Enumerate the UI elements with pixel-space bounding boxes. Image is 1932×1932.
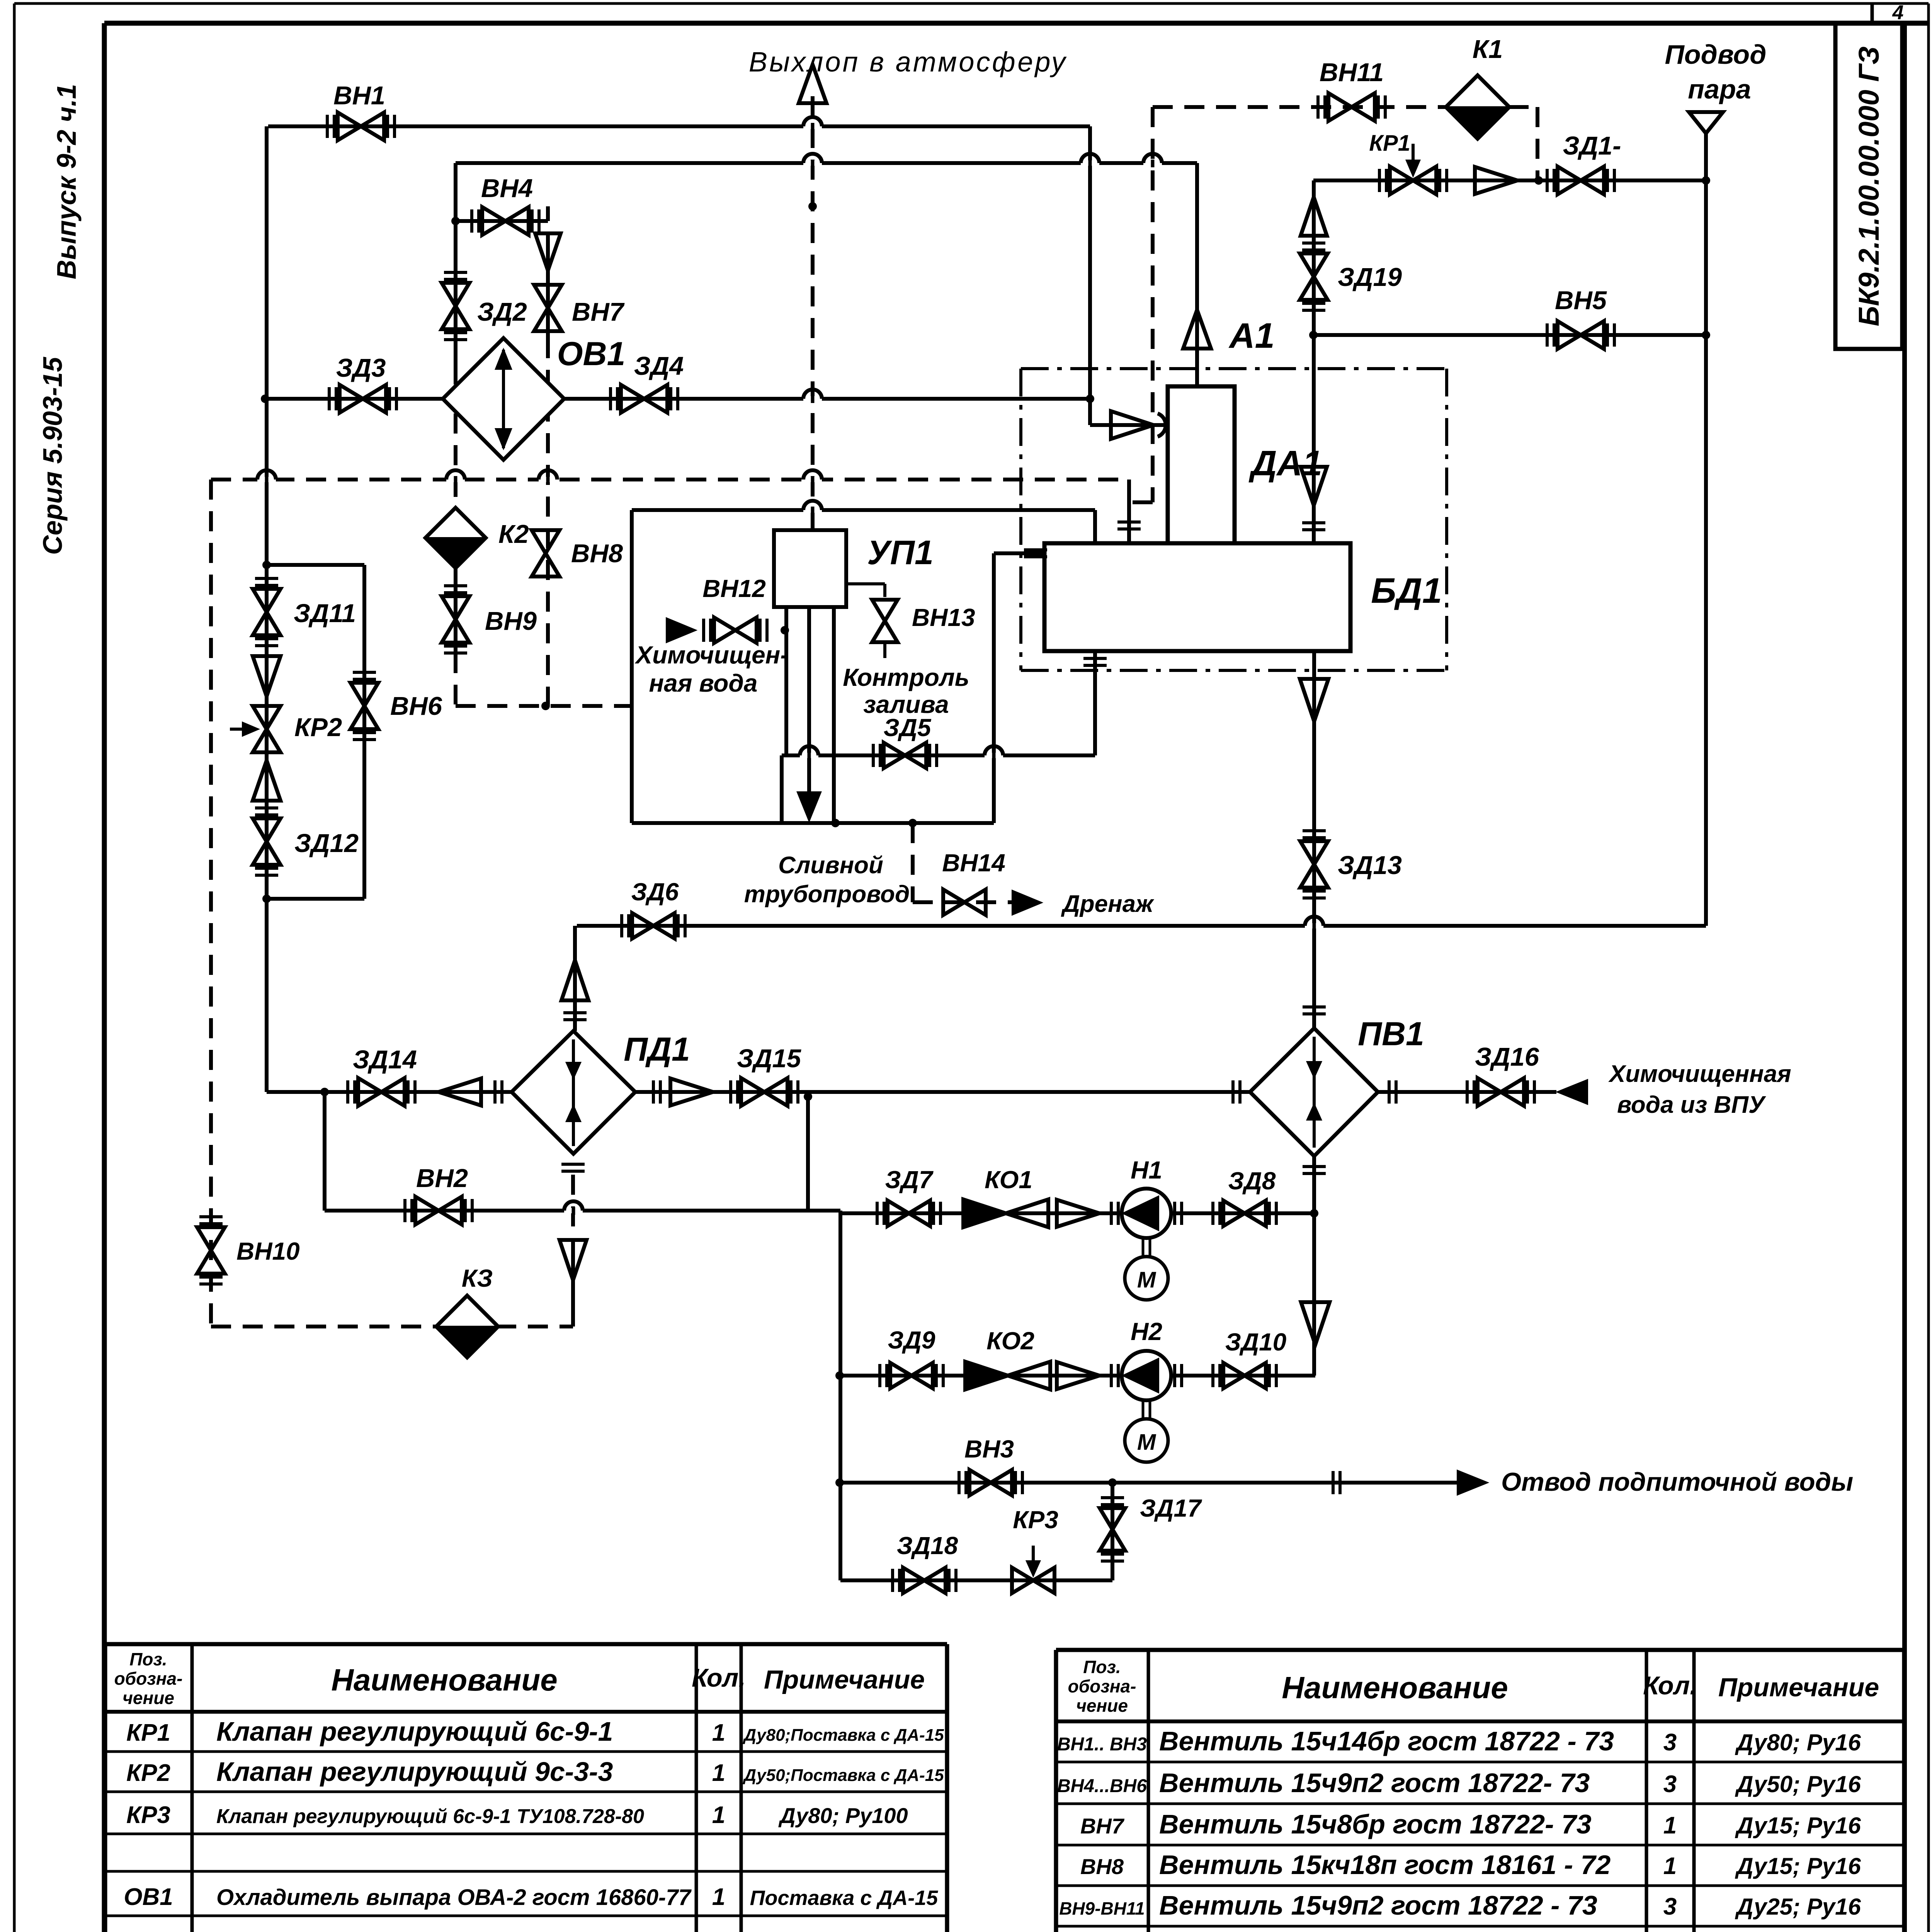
wire: tank top nozzle x=2922 (1330..1406) <box>1127 514 1131 543</box>
gate valve ЗД8 <box>1213 1201 1276 1226</box>
svg-text:ЗД8: ЗД8 <box>1228 1167 1276 1195</box>
wire: BH2 line y=3133 (840..2175) <box>325 1209 840 1213</box>
svg-text:Выхлоп в атмосферу: Выхлоп в атмосферу <box>749 47 1067 78</box>
node: BH4 tee <box>451 217 460 225</box>
svg-text:КО1: КО1 <box>985 1166 1032 1194</box>
dashed: left loop vertical x=546 (1241..3433) <box>209 480 213 1327</box>
svg-text:ВН5: ВН5 <box>1555 286 1607 315</box>
valve ВН10 <box>197 1217 225 1284</box>
svg-text:КР2: КР2 <box>126 1760 170 1786</box>
svg-text:Химочищен-: Химочищен- <box>634 641 788 669</box>
reducer above ЗД12 <box>253 760 281 801</box>
wire: KP1 line y=467 (3399..4415) <box>1313 179 1706 182</box>
wire: vertical from wire1 corner x=2821 down to OB1 line <box>1088 126 1092 425</box>
svg-text:1: 1 <box>712 1719 725 1746</box>
gate valve ЗД19 <box>1300 243 1328 310</box>
flow arrow out of ПД1 <box>670 1078 713 1105</box>
node: ZD17 tee <box>1108 1478 1117 1487</box>
gate valve ЗД10 <box>1213 1363 1276 1388</box>
wire: UP1 right pipe x=2158 (1571..2130) <box>832 607 836 823</box>
svg-text:ЗД4: ЗД4 <box>634 352 684 381</box>
svg-text:ВН10: ВН10 <box>236 1237 300 1265</box>
svg-text:ПД1: ПД1 <box>624 1031 690 1068</box>
svg-text:ВН6: ВН6 <box>390 692 442 721</box>
wire jump at 1179,1241 <box>446 477 465 482</box>
wire: bypass loop top y=1462 (690..943) <box>267 563 364 567</box>
dashed: K3 line y=3433 (546..1483) <box>211 1325 573 1328</box>
regulating valve КР1 <box>1379 144 1447 194</box>
wire: steam supply vertical x=4415 <box>1704 132 1708 926</box>
svg-text:ЗД2: ЗД2 <box>477 298 527 327</box>
svg-text:обозна-: обозна- <box>1068 1676 1136 1696</box>
gate valve ЗД16 <box>1467 1078 1534 1106</box>
svg-text:Ду15; Ру16: Ду15; Ру16 <box>1735 1813 1861 1838</box>
wire: BH4 right stub x=1418 (534..572) <box>546 206 550 221</box>
wire: ZD18 line y=4090 (2175..2879) <box>840 1578 1112 1582</box>
svg-text:ВН1.. ВН3: ВН1.. ВН3 <box>1057 1734 1147 1755</box>
svg-text:ВН13: ВН13 <box>912 604 975 631</box>
svg-text:1: 1 <box>712 1760 725 1786</box>
node: OB1 line end <box>1086 395 1094 403</box>
wire jump at 2572,1955 <box>985 753 1003 758</box>
wire: PD1 top riser x=1488 <box>573 926 577 1031</box>
node: BH14 tee <box>908 819 917 827</box>
svg-text:К2: К2 <box>498 520 529 549</box>
wire: ZD2 vertical x=1179 (572..995) <box>454 221 457 384</box>
heat exchanger ОВ1 (vapor cooler) <box>443 338 564 460</box>
valve ВН12 <box>704 617 767 643</box>
svg-text:ВН12: ВН12 <box>702 575 766 602</box>
svg-text:Отвод подпиточной воды: Отвод подпиточной воды <box>1501 1468 1853 1497</box>
svg-text:ЗД13: ЗД13 <box>1338 851 1402 880</box>
svg-text:Клапан регулирующий 6с-9-1 ТУ1: Клапан регулирующий 6с-9-1 ТУ108.728-80 <box>216 1805 644 1828</box>
wire: BH5 line y=867 (3399..4415) <box>1313 333 1706 337</box>
wire jump at 690,1241 <box>257 477 276 482</box>
inlet arrow Химочищенная вода из ВПУ <box>1558 1080 1587 1104</box>
wire: corner drop x=2035..2023 to drain <box>780 755 784 823</box>
svg-text:1: 1 <box>1663 1853 1677 1879</box>
wire: second header line y=422 from x1179 to x3098 <box>456 161 1197 165</box>
wire: suction manifold x=2175 (3133..4090) <box>838 1211 842 1580</box>
wire: K3 riser x=1483 (3040..3433) <box>571 1239 575 1327</box>
gate valve ЗД3 <box>329 385 396 413</box>
svg-text:КР1: КР1 <box>1369 131 1410 156</box>
node: steam tee BH5 <box>1702 331 1710 339</box>
dashed: K2 drain line y=1827 (1179..1635) <box>456 704 632 708</box>
node: steam tee KP1 <box>1702 176 1710 185</box>
svg-text:ОВ1: ОВ1 <box>557 335 626 372</box>
svg-text:ЗД5: ЗД5 <box>884 714 932 742</box>
wire: UP1 middle drain pipe x=2094 (1571..2115) <box>807 607 811 815</box>
svg-text:Наименование: Наименование <box>331 1663 557 1697</box>
svg-text:ВН9-ВН11: ВН9-ВН11 <box>1059 1898 1145 1918</box>
valve ВН13 branch <box>846 582 885 585</box>
wire: tank side nozzle y=1432 (2572..2703) <box>994 551 1044 555</box>
svg-text:ЗД15: ЗД15 <box>737 1044 802 1073</box>
svg-text:ЗД16: ЗД16 <box>1475 1043 1539 1071</box>
valve ВН8 <box>532 530 560 577</box>
dashed: exhaust to atmosphere x=2103 (249..1372) <box>811 96 815 530</box>
regulating valve КР2 <box>230 706 281 752</box>
gate valve ЗД12 <box>253 808 281 875</box>
reducer on ЗД19 riser <box>1301 197 1327 236</box>
node on exhaust line <box>808 202 817 211</box>
svg-text:ЗД1-: ЗД1- <box>1563 131 1621 160</box>
svg-text:ВН11: ВН11 <box>1320 58 1384 87</box>
svg-text:Вентиль 15ч9п2 гост 18722 - 7: Вентиль 15ч9п2 гост 18722 - 73 <box>1159 1890 1597 1920</box>
svg-text:Клапан регулирующий 9с-3-3: Клапан регулирующий 9с-3-3 <box>216 1757 613 1787</box>
svg-text:Наименование: Наименование <box>1282 1670 1508 1705</box>
wire: riser from ZD15 line x=2091 (2838..3133) <box>806 1097 810 1211</box>
wire: bypass drop x=840 (2826..3133) <box>323 1092 327 1211</box>
svg-text:ная вода: ная вода <box>649 669 757 697</box>
heat exchanger ПВ1 (water-water heater) <box>1250 1028 1378 1156</box>
gate valve ЗД14 <box>348 1078 415 1106</box>
svg-text:ВН3: ВН3 <box>964 1435 1014 1463</box>
svg-text:Ду25; Ру16: Ду25; Ру16 <box>1735 1894 1861 1920</box>
svg-text:1: 1 <box>1663 1812 1677 1839</box>
flow arrow into ПД1 <box>439 1078 481 1105</box>
wire: UP1 overflow drop into tank x=2834 <box>1093 510 1097 543</box>
wire jump at 1418,1241 <box>539 477 557 482</box>
svg-text:Ду15; Ру16: Ду15; Ру16 <box>1735 1853 1861 1879</box>
tank outlet funnel <box>1300 679 1328 721</box>
valve ВН5 <box>1547 321 1614 349</box>
gate valve ЗД18 <box>893 1568 956 1593</box>
wire jump at 3401,2396 <box>1305 923 1323 929</box>
valve ВН4 <box>472 207 539 235</box>
gate valve ЗД9 <box>880 1363 943 1388</box>
drain arrow (black) on UP1 middle pipe <box>798 792 821 821</box>
gate valve ЗД7 <box>877 1201 940 1226</box>
svg-text:Примечание: Примечание <box>764 1665 925 1694</box>
svg-text:3: 3 <box>1663 1893 1677 1920</box>
wire: main water line y=2826 (690..3235) <box>267 1090 1250 1094</box>
dashed: left loop horizontal y=1241 (546..2922) <box>211 478 1129 481</box>
svg-text:М: М <box>1137 1267 1156 1293</box>
node: BH12 tee <box>781 626 789 634</box>
svg-text:ЗД7: ЗД7 <box>885 1166 934 1194</box>
svg-text:пара: пара <box>1688 74 1751 104</box>
stamp box БК9.2.1.00.00.000 ГЗ (top right) <box>1835 23 1902 349</box>
dash-dot boundary A1 (deaerator unit box) <box>1021 369 1447 670</box>
wire: ZD5 line y=1955 (2023..2834) <box>782 753 1095 757</box>
wire: K2/BH9 x=1179 (1536..1690) <box>454 594 457 653</box>
node: ZD19/BH5 <box>1309 331 1318 339</box>
dashed: BH11 line y=277 (2983..3744) <box>1153 105 1447 109</box>
node: BH3 tee <box>835 1478 844 1487</box>
dashed: BH11 line vertical x=2983 (277..1300) <box>1151 107 1155 502</box>
svg-text:ЗД14: ЗД14 <box>353 1045 417 1074</box>
svg-text:Контроль: Контроль <box>843 663 969 691</box>
svg-text:чение: чение <box>1076 1696 1128 1716</box>
svg-text:4: 4 <box>1892 2 1904 24</box>
valve ВН3 <box>959 1470 1022 1495</box>
svg-text:М: М <box>1137 1430 1156 1455</box>
node: BH2 branch <box>320 1088 329 1096</box>
outlet arrow Отвод подпиточной воды <box>1458 1471 1487 1495</box>
wire: deaerator column feed vertical x=3400 (467..1406) <box>1312 180 1316 543</box>
wire jump at 2094,1955 <box>800 753 818 758</box>
node: H2 tee <box>835 1371 844 1380</box>
svg-text:Химочищенная: Химочищенная <box>1608 1061 1791 1087</box>
node: BH8/K2 line <box>541 702 550 710</box>
svg-text:ВН9: ВН9 <box>485 607 537 636</box>
wire: pump H1 line y=3140 (2175..3401) <box>840 1211 1314 1215</box>
svg-text:ВН4: ВН4 <box>481 174 533 203</box>
svg-text:ВН7: ВН7 <box>1080 1814 1125 1838</box>
flow arrow H1 <box>1057 1200 1099 1227</box>
svg-text:Вентиль 15ч9п2 гост 18722- 73: Вентиль 15ч9п2 гост 18722- 73 <box>1159 1768 1590 1798</box>
svg-text:Н2: Н2 <box>1131 1318 1162 1345</box>
svg-text:Сливной: Сливной <box>778 852 883 879</box>
svg-text:Клапан регулирующий 6с-9-1: Клапан регулирующий 6с-9-1 <box>216 1716 613 1747</box>
wire: riser x=3098 from wire2 to DA1 top <box>1195 163 1199 386</box>
wire jump at 2103,1320 <box>803 507 822 513</box>
wire: UP1 box left drop x=1635 (1320..2130) <box>630 510 634 823</box>
dashed: BH11 elbow to nozzle <box>1129 500 1153 504</box>
svg-text:Ду80; Ру16: Ду80; Ру16 <box>1735 1730 1861 1755</box>
dashed: K1 drop x=3979 (277..467) <box>1536 107 1539 180</box>
exhaust arrow to atmosphere <box>799 65 827 103</box>
gate valve ЗД4 <box>611 385 678 413</box>
gate valve ЗД17 <box>1100 1498 1125 1561</box>
valve ВН9 <box>442 586 469 653</box>
wire: drain header y=2130 (1635..2572) <box>632 821 994 825</box>
svg-text:К1: К1 <box>1473 35 1503 64</box>
deaerator column ДА1 <box>1168 386 1235 543</box>
wire: K2 to flange x=1179 (1429..1536) <box>454 552 457 594</box>
valve ВН14 <box>943 889 986 915</box>
wire: BH7 vertical x=1418 (572..875) <box>546 233 550 338</box>
svg-text:Подвод: Подвод <box>1665 39 1767 70</box>
КР3 body <box>1012 1568 1054 1593</box>
node: bypass bottom <box>262 895 271 903</box>
svg-text:Вентиль 15ч8бр гост 18722- 73: Вентиль 15ч8бр гост 18722- 73 <box>1159 1809 1592 1839</box>
svg-text:1: 1 <box>712 1884 725 1910</box>
svg-text:Кол.: Кол. <box>692 1663 746 1692</box>
reducer above ВН7 <box>535 233 561 270</box>
wire jump at 2983,422 <box>1143 160 1162 166</box>
dashed: BH7/BH8 vertical x=1418 (875..1827) <box>546 338 550 706</box>
node: K1 drop on KP1 line <box>1534 176 1543 185</box>
svg-text:ЗД6: ЗД6 <box>631 878 679 906</box>
svg-text:ВН8: ВН8 <box>1080 1854 1124 1879</box>
svg-text:трубопровод: трубопровод <box>744 881 910 908</box>
deaerator tank БД1 <box>1044 543 1350 651</box>
svg-text:ВН8: ВН8 <box>571 539 623 568</box>
gate valve ЗД2 <box>442 272 469 340</box>
svg-text:ЗД17: ЗД17 <box>1140 1494 1202 1522</box>
wire jump at 1484,3133 <box>564 1208 583 1213</box>
svg-text:1: 1 <box>712 1802 725 1828</box>
svg-text:БД1: БД1 <box>1371 571 1442 611</box>
svg-text:ПВ1: ПВ1 <box>1358 1015 1424 1053</box>
node: ZD8/PV1 <box>1310 1209 1318 1218</box>
left specification table <box>105 1644 947 1932</box>
dashed: BH14 branch x=2362 (2130..2335) <box>911 823 915 902</box>
svg-text:ЗД12: ЗД12 <box>294 829 359 858</box>
funnel on К3 riser <box>560 1240 587 1280</box>
svg-text:ДА1: ДА1 <box>1248 444 1322 483</box>
wire jump at 2103,1032 <box>803 396 822 401</box>
wire: OB1 line y=1032 (690..2821) <box>265 397 1090 401</box>
svg-text:Охладитель выпара ОВА-2 гост 1: Охладитель выпара ОВА-2 гост 16860-77 <box>216 1885 692 1910</box>
svg-text:Ду50; Ру16: Ду50; Ру16 <box>1735 1771 1861 1797</box>
valve ВН11 <box>1318 93 1385 121</box>
svg-text:КО2: КО2 <box>986 1327 1034 1355</box>
column feed arrow/flange <box>1301 467 1327 505</box>
wire: ZD5 riser into tank bottom x=2834 (1685..1955) <box>1093 651 1097 755</box>
svg-text:Серия 5.903-15: Серия 5.903-15 <box>37 357 68 555</box>
wire: bypass loop bottom y=2326 (690..943) <box>267 897 364 901</box>
svg-text:Вентиль 15ч14бр гост 18722 -: Вентиль 15ч14бр гост 18722 - 73 <box>1159 1726 1614 1756</box>
dashed: BH9 outlet x=1179 (1690..1823) <box>454 653 457 704</box>
condensate trap К2 <box>425 508 486 568</box>
svg-text:Поз.: Поз. <box>129 1649 167 1669</box>
svg-text:ЗД18: ЗД18 <box>897 1532 958 1560</box>
wire jump at 2821,422 <box>1081 160 1099 166</box>
gate valve ЗД6 <box>622 913 685 939</box>
svg-text:Поз.: Поз. <box>1083 1657 1121 1677</box>
svg-text:ЗД19: ЗД19 <box>1338 263 1402 292</box>
wire: top header line y=327 from x690 to x2821 <box>268 124 1090 128</box>
arrow into column feed <box>1183 310 1211 349</box>
svg-text:ЗД3: ЗД3 <box>336 354 386 383</box>
КР1 body <box>1379 167 1447 194</box>
svg-text:БК9.2.1.00.00.000 ГЗ: БК9.2.1.00.00.000 ГЗ <box>1853 46 1885 327</box>
arrow above ПД1 <box>561 960 588 1000</box>
wire jump at 2103,327 <box>803 124 822 129</box>
gate valve ЗД1 <box>1547 167 1614 194</box>
pump Н2 with motor <box>1111 1351 1182 1462</box>
svg-text:3: 3 <box>1663 1771 1677 1798</box>
svg-text:А1: А1 <box>1228 316 1275 355</box>
svg-text:3: 3 <box>1663 1729 1677 1756</box>
valve ВН7 <box>534 285 562 331</box>
flow arrow H2 <box>1057 1362 1099 1389</box>
svg-text:ВН7: ВН7 <box>572 298 625 327</box>
valve ВН2 <box>405 1197 472 1225</box>
gate valve ЗД11 <box>253 578 281 646</box>
svg-text:Ду80;Поставка с ДА-15: Ду80;Поставка с ДА-15 <box>742 1726 944 1745</box>
regulating valve КР3 <box>1012 1546 1054 1593</box>
right specification table <box>1056 1650 1904 1932</box>
svg-text:Примечание: Примечание <box>1718 1673 1879 1702</box>
valve ВН6 <box>350 672 378 740</box>
svg-text:ЗД9: ЗД9 <box>888 1326 935 1354</box>
svg-text:УП1: УП1 <box>867 533 934 571</box>
valve ВН1 <box>327 112 395 140</box>
check valve КО2 <box>965 1362 1050 1389</box>
dashed: BH14 line y=2335 (2362..2620) <box>913 900 1012 904</box>
check valve КО1 <box>963 1199 1048 1227</box>
wire: stub into DA1 column y=1100 <box>1090 423 1168 427</box>
svg-text:Ду50;Поставка с ДА-15: Ду50;Поставка с ДА-15 <box>742 1766 944 1785</box>
wire: left main riser x=690 (327..2826) <box>265 126 269 1092</box>
svg-text:Поставка с ДА-15: Поставка с ДА-15 <box>750 1886 939 1910</box>
svg-text:ЗД10: ЗД10 <box>1225 1328 1287 1356</box>
supply arrow Химочищенная вода <box>667 618 696 642</box>
wire: ZD17 branch x=2879 (3837..4090) <box>1111 1483 1114 1580</box>
КР2 body <box>253 706 281 752</box>
svg-text:Выпуск 9-2 ч.1: Выпуск 9-2 ч.1 <box>51 84 82 279</box>
svg-text:Н1: Н1 <box>1131 1156 1162 1184</box>
svg-text:КР3: КР3 <box>1013 1506 1058 1534</box>
svg-text:ОВ1: ОВ1 <box>124 1884 173 1910</box>
node: ZD15/BH2 riser <box>804 1092 812 1101</box>
node: riser/OB1 line <box>261 395 269 403</box>
wire jump at 2103,1241 <box>803 477 822 482</box>
svg-text:КР3: КР3 <box>126 1802 170 1828</box>
condensate trap К3 <box>436 1296 498 1357</box>
flow arrow into column side <box>1111 411 1153 439</box>
svg-text:ВН14: ВН14 <box>942 849 1005 877</box>
wire: BH3 line y=3837 (2175..3772) <box>840 1481 1458 1485</box>
svg-text:Вентиль 15кч18п гост 18161 -: Вентиль 15кч18п гост 18161 - 72 <box>1159 1850 1611 1880</box>
gate valve ЗД5 <box>873 743 937 768</box>
heat exchanger ПД1 (water heater) <box>512 1031 635 1154</box>
wire: pump H2 line y=3560 (2175..3404) <box>840 1374 1315 1378</box>
reducer below ЗД11 <box>253 656 281 696</box>
condensate trap К1 <box>1446 75 1509 139</box>
svg-text:Дренаж: Дренаж <box>1061 891 1155 917</box>
svg-text:Ду80; Ру100: Ду80; Ру100 <box>778 1803 908 1828</box>
dashed: PD1 bottom drop x=1483 (3040..3206) <box>571 1175 575 1239</box>
gate valve ЗД13 <box>1300 831 1328 898</box>
sheet number cell 4 <box>1872 2 1904 24</box>
wire: drop from wire2 to BH4 x=1179 (422..572) <box>454 163 457 221</box>
safety device УП1 <box>774 530 846 607</box>
svg-text:ВН1: ВН1 <box>333 81 385 110</box>
svg-text:КЗ: КЗ <box>462 1264 493 1292</box>
wire: steam line to PD1 y=2396 (1493..4415) <box>577 924 1706 928</box>
wire: bypass BH6 vertical x=943 <box>362 565 366 899</box>
drain arrow Дренаж <box>1012 891 1041 915</box>
wire: BH4 line y=572 (1179..1418) <box>456 219 548 223</box>
dashed: OB1 left drop x=1179 (1070..1347) <box>454 413 457 520</box>
svg-text:вода из ВПУ: вода из ВПУ <box>1617 1092 1766 1118</box>
svg-text:КР1: КР1 <box>126 1719 170 1746</box>
svg-text:ВН2: ВН2 <box>416 1164 468 1193</box>
dashed: K1 link y=277 (3904..3979) <box>1509 105 1537 109</box>
svg-text:КР2: КР2 <box>294 713 342 742</box>
svg-text:чение: чение <box>122 1688 174 1708</box>
flow arrow on КР1 line <box>1475 167 1517 194</box>
svg-text:ЗД11: ЗД11 <box>294 599 356 628</box>
svg-text:Кол.: Кол. <box>1643 1671 1697 1700</box>
gate valve ЗД15 <box>731 1078 798 1106</box>
node: UP1 drain tee <box>831 819 840 827</box>
wire: UP1 left pipe x=2035 (1571..1955) <box>784 607 788 755</box>
wire jump at 2103,422 <box>803 160 822 166</box>
node: bypass top <box>262 561 271 569</box>
svg-text:обозна-: обозна- <box>114 1668 183 1689</box>
valve ВН13 <box>872 600 898 642</box>
wire: main water line y=2826 PV1 right (3566..4028) <box>1378 1090 1556 1094</box>
funnel above H2 corner <box>1301 1302 1330 1345</box>
wire: UP1 overflow line y=1320 (1635..2834) <box>632 508 1095 512</box>
svg-text:ВН4...ВН6: ВН4...ВН6 <box>1057 1776 1147 1796</box>
pump Н1 with motor <box>1111 1189 1182 1300</box>
wire: drain riser to tank side x=2572 (1432..2130) <box>992 553 996 823</box>
dashed: drop to tank nozzle x=2922 (1241..1330) <box>1127 480 1131 514</box>
steam inlet funnel Подвод пара <box>1689 112 1723 133</box>
wire: BD1 drain vertical x=3401 (1406..3560) <box>1312 543 1316 1376</box>
